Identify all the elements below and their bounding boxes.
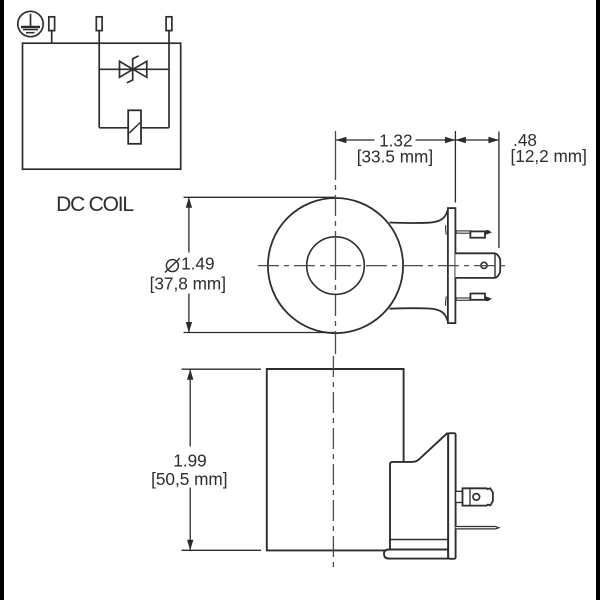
connector horn fillet upper (top view) [445,225,448,234]
svg-text:DC COIL: DC COIL [56,193,133,216]
dimension symbol diameter [165,258,180,272]
wire terminal2 down into box [98,31,100,128]
connector horn fillet lower (top view) [445,297,448,306]
dimension 1.32 line right segment [416,139,456,141]
connector foot (side view) [384,550,448,559]
connector horn lower edge (top view) [390,308,448,321]
coil enclosure box [23,43,181,169]
TVS suppressor diode D1 right triangle [133,61,147,77]
spade terminal body (side view) [463,488,493,505]
arrowhead diameter down [186,322,192,333]
extension line coil top (side view) [182,368,262,370]
spade terminal stem (side view) [456,491,463,502]
svg-text:[50,5 mm]: [50,5 mm] [151,469,227,489]
extension line circle bottom [184,332,337,334]
svg-text:1.99: 1.99 [173,450,206,470]
svg-text:1.49: 1.49 [181,254,214,274]
connector horn upper edge (top view) [390,210,448,223]
lower spade pin tip (top view) [485,297,491,301]
dimension line 1.99 lower segment [189,488,191,551]
svg-text:[37,8 mm]: [37,8 mm] [150,274,226,294]
arrowhead diameter up [186,197,192,208]
spade terminal hole (side view) [473,494,480,501]
svg-text:[33.5 mm]: [33.5 mm] [357,146,433,166]
arrowhead 1.32 right [445,137,456,143]
coil body outer circle (top view) [268,198,403,333]
arrowhead .48 right [488,137,499,143]
TVS suppressor diode D1 cathode Z-bar [127,56,139,83]
extension line flange face [454,131,456,203]
centerline vertical (side view) [332,356,334,572]
coil bore inner circle (top view) [307,237,365,295]
varistor RV1 diagonal stroke [129,123,140,134]
upper spade pin body (top view) [470,231,485,237]
wire TVS branch horizontal [99,68,169,70]
center lines drawn last [258,131,510,572]
terminal pin 1 (earth terminal) [49,17,55,31]
dimension line 1.99 upper segment [189,369,191,446]
lower spade pin stem (top view) [456,298,470,300]
terminal pin 3 [166,17,172,31]
DIN plug block chamfer seam [494,254,496,278]
wire bottom branch horizontal [99,127,169,129]
DIN plug screw hole [481,262,487,268]
mounting flange (side view) [448,433,455,559]
extension line coil bottom (side view) [182,549,262,551]
extension line circle top [184,196,337,198]
TVS suppressor diode D1 left triangle [120,61,134,77]
dimension line diameter lower segment [188,294,190,333]
arrowhead 1.99 up [187,369,193,380]
mounting flange (top view) [448,208,456,323]
wire terminal3 down into box [168,31,170,128]
arrowhead 1.99 down [187,540,193,551]
svg-text:[12,2 mm]: [12,2 mm] [510,146,586,166]
wire terminal1 to coil box [51,31,53,44]
spade terminal seam (side view) [469,488,471,505]
upper spade pin tip (top view) [485,230,491,234]
dimension 1.32 line left segment [336,139,375,141]
centerline vertical (top view) [335,131,337,354]
extension line plug end [498,132,500,249]
coil body rectangle (side view) [267,369,404,550]
center pin (side view) [456,527,499,529]
varistor RV1 body [128,110,141,144]
terminal pin 2 [96,17,102,31]
ground symbol (protective earth) [18,11,43,36]
DIN plug block (top view) [455,253,500,278]
arrowhead .48 left [455,137,466,143]
connector body (side view) [390,434,448,550]
upper spade pin stem (top view) [456,231,470,233]
arrowhead 1.32 left [336,137,347,143]
dimension .48 line [455,139,499,141]
connector body seam line (side view) [390,539,448,541]
centerline horizontal (top view) [258,265,510,267]
dimension line diameter upper segment [188,197,190,252]
lower spade pin body (top view) [470,294,485,300]
